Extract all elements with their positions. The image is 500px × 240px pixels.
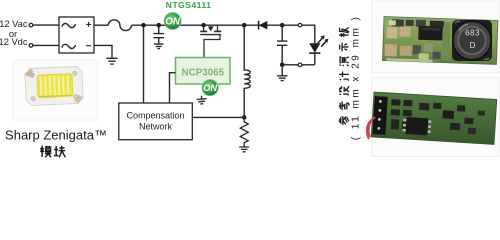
bridge minus sign [86, 45, 91, 47]
wire bridge plus output to fuse [94, 24, 108, 26]
svg-text:NCP3065: NCP3065 [182, 68, 225, 79]
inductor L1 [244, 25, 250, 117]
transistor Q1 NTGS4111 [200, 25, 221, 57]
ground G5 [277, 65, 287, 81]
IC U1 NCP3065 box [176, 58, 231, 85]
node dot rail-compensation [141, 23, 146, 28]
label module (Chinese glyphs as paths) [40, 146, 65, 158]
red hookup wire [367, 117, 375, 139]
input terminal top [29, 23, 33, 27]
node dot bottom rail [280, 63, 285, 68]
wire bottom rail to terminal [284, 64, 298, 66]
svg-text:Sharp Zenigata™: Sharp Zenigata™ [5, 127, 107, 142]
output terminal top [298, 23, 302, 27]
svg-text:ON: ON [203, 83, 217, 93]
svg-text:Compensation: Compensation [126, 111, 184, 121]
wire bottom terminal to LED cathode [302, 64, 315, 66]
wire feedback to compensation network [192, 116, 244, 118]
capacitor C1 [153, 25, 164, 44]
photo: Sharp Zenigata LED module [13, 60, 98, 120]
wire to output terminal top [284, 24, 298, 26]
ON logo on NCP3065 [202, 79, 218, 95]
capacitor C2 [277, 25, 287, 65]
svg-text:12 Vdc: 12 Vdc [0, 37, 28, 47]
wire terminal to LED [302, 25, 315, 43]
compensation network box [119, 103, 193, 140]
svg-text:ON: ON [165, 16, 181, 27]
ground G4 [239, 147, 249, 152]
svg-text:Network: Network [139, 122, 173, 132]
ground G2 [154, 44, 164, 49]
fuse F1 [108, 20, 131, 31]
svg-text:NTGS4111: NTGS4111 [166, 0, 212, 10]
wire NCP3065 to compensation network [170, 73, 176, 103]
resistor R1 [240, 117, 248, 146]
photo: demo board bottom side [372, 78, 500, 157]
ground G3 under NCP3065 [197, 96, 207, 104]
label reference design demo board (vertical Chinese, as paths) [339, 27, 349, 124]
diode D1 [259, 21, 268, 30]
input terminal bottom [29, 44, 33, 48]
LED arrows [318, 35, 329, 46]
svg-text:683: 683 [465, 29, 480, 38]
svg-text:( 11 mm x 29 mm ): ( 11 mm x 29 mm ) [350, 15, 361, 141]
node dot rail-inductor [242, 23, 247, 28]
bridge ac symbol bottom [62, 44, 76, 48]
bridge plus sign [86, 22, 91, 27]
inductor 683D on board [452, 20, 492, 61]
wire node A to compensation network [143, 25, 145, 103]
node dot output cap [280, 23, 285, 28]
ON logo on rail [164, 12, 181, 29]
svg-text:12 Vac: 12 Vac [0, 19, 28, 29]
node dot inductor-resistor [242, 115, 247, 120]
wire bridge minus to ground [94, 45, 112, 58]
photo: demo board top side [372, 1, 500, 73]
bridge rectifier BR1 [59, 17, 94, 53]
LED D2 [309, 43, 320, 65]
node dot transistor source [201, 23, 206, 28]
wire input ac top [33, 24, 59, 26]
output terminal bottom [298, 63, 302, 67]
ground G1 [106, 58, 117, 64]
svg-text:D: D [470, 41, 476, 50]
bridge ac symbol top [62, 23, 76, 27]
wire input ac bottom [33, 44, 59, 46]
wire main rail [132, 24, 285, 26]
node dot rail-C1 [156, 23, 161, 28]
